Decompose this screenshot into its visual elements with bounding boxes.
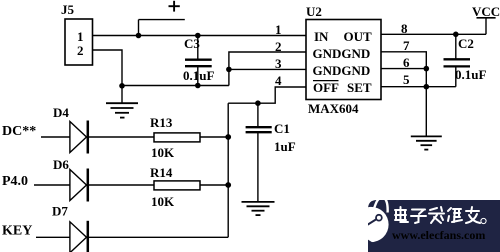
wire U2 pin3 stub (229, 68, 306, 70)
node junction pin3 (226, 67, 232, 73)
svg-text:1: 1 (275, 22, 282, 37)
svg-text:4: 4 (275, 73, 282, 88)
svg-text:10K: 10K (151, 145, 175, 160)
wire R14 to pull vertical (200, 184, 228, 186)
svg-text:KEY: KEY (2, 224, 32, 239)
svg-text:C3: C3 (184, 36, 200, 51)
node junction pin1/plus (136, 33, 142, 39)
node junction J5 gnd (119, 83, 125, 89)
wire P4.0 to D6 (34, 184, 70, 186)
svg-text:DC**: DC** (2, 124, 36, 139)
svg-text:C1: C1 (274, 121, 290, 136)
wire J5 pin2 (93, 50, 123, 86)
plus symbol (169, 1, 180, 12)
wire J5 pin1 to U2 IN (93, 35, 307, 37)
node junction C1/OFF (255, 100, 261, 106)
svg-text:D6: D6 (53, 157, 69, 172)
svg-text:5: 5 (403, 72, 410, 87)
svg-text:D7: D7 (52, 204, 68, 219)
wire D4 to R13 (89, 136, 154, 138)
svg-text:R13: R13 (150, 115, 173, 130)
wire R13 to pull vertical (200, 136, 228, 138)
svg-text:1uF: 1uF (274, 139, 296, 154)
svg-text:6: 6 (403, 55, 410, 70)
ground G3 under U2 (411, 136, 442, 149)
svg-text:IN: IN (314, 29, 329, 44)
svg-text:7: 7 (403, 38, 410, 53)
watermark chinese text (395, 207, 480, 223)
svg-text:D4: D4 (53, 105, 69, 120)
wire D6 to R14 (89, 184, 154, 186)
svg-text:P4.0: P4.0 (2, 174, 28, 189)
capacitor C1 (246, 103, 296, 202)
wire pull network vertical (227, 103, 229, 237)
wire + branch vertical (138, 20, 140, 36)
svg-text:GNDGND: GNDGND (313, 63, 371, 78)
wire KEY to D7 (36, 236, 70, 238)
node junction pin5 (424, 84, 430, 90)
node junction pin1/C3 (195, 33, 201, 39)
diode D7 (52, 204, 88, 252)
node junction pin8/C2 (453, 32, 459, 38)
svg-text:2: 2 (275, 39, 282, 54)
wire U2 pin5 (381, 86, 456, 88)
svg-text:0.1uF: 0.1uF (183, 68, 214, 83)
diode D4 (53, 105, 88, 154)
node junction R14 (225, 182, 231, 188)
svg-text:1: 1 (77, 29, 84, 44)
connector J5 (61, 2, 93, 65)
svg-text:R14: R14 (150, 165, 173, 180)
capacitor C3 (183, 36, 214, 86)
resistor R13 (150, 115, 200, 160)
wire U2 pin2 stub (229, 52, 306, 86)
node junction pin6 (424, 66, 430, 72)
wire U2 pin7 (381, 52, 426, 136)
diode D6 (53, 157, 88, 202)
wire D7 to pull vertical (89, 236, 228, 238)
svg-text:J5: J5 (61, 2, 75, 17)
node junction R13 (225, 134, 231, 140)
svg-text:U2: U2 (306, 4, 322, 19)
svg-text:GNDGND: GNDGND (313, 46, 371, 61)
svg-text:3: 3 (275, 56, 282, 71)
wire DC to D4 (41, 136, 70, 138)
capacitor C2 (444, 34, 487, 86)
resistor R14 (150, 165, 200, 209)
wire U2 pin8 to VCC (381, 33, 486, 35)
wire ground net horizontal (122, 85, 229, 87)
svg-text:OFF: OFF (313, 80, 339, 95)
watermark logo box (368, 200, 500, 252)
ground G2 under C1 (242, 202, 275, 215)
power VCC (472, 4, 500, 34)
wire U2 pin6 (381, 68, 426, 70)
op-amp U2 MAX604 (306, 4, 381, 116)
ground G1 under J5 (106, 86, 138, 118)
svg-text:2: 2 (77, 43, 84, 58)
svg-text:0.1uF: 0.1uF (455, 67, 486, 82)
svg-text:SET: SET (347, 80, 372, 95)
svg-text:OUT: OUT (344, 29, 373, 44)
watermark registered mark (481, 218, 486, 223)
wire + branch horizontal (139, 19, 185, 21)
svg-text:C2: C2 (458, 36, 474, 51)
svg-text:www.elecfans.com: www.elecfans.com (392, 228, 485, 242)
svg-text:MAX604: MAX604 (308, 101, 359, 116)
watermark circle logo (353, 198, 388, 247)
node junction C3/gnd (195, 83, 201, 89)
wire U2 pin4 OFF (228, 87, 306, 103)
svg-text:10K: 10K (151, 194, 175, 209)
svg-text:VCC: VCC (472, 4, 500, 19)
